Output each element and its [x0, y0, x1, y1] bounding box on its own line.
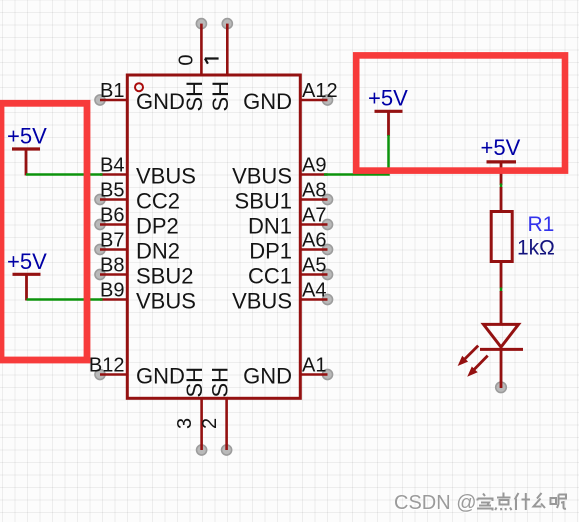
- svg-text:+5V: +5V: [7, 249, 47, 274]
- svg-text:A8: A8: [302, 180, 326, 202]
- LED D1 triangle: [484, 324, 519, 347]
- pin 3 endpoint pad (bottom shield pin): [197, 445, 207, 455]
- pin B12 endpoint pad: [95, 369, 105, 379]
- pin 3 (bottom shield pin): [200, 398, 203, 451]
- pin B1 endpoint pad: [95, 95, 105, 105]
- watermark hanzi 点: [495, 493, 511, 511]
- svg-text:B8: B8: [100, 255, 124, 277]
- svg-text:GND: GND: [243, 89, 292, 114]
- highlight box (top right, around +5V flag): [356, 55, 565, 170]
- pin B8: [100, 273, 127, 276]
- svg-text:SH: SH: [182, 367, 207, 398]
- LED D1 light arrow 1: [459, 346, 478, 365]
- svg-text:0: 0: [176, 54, 198, 65]
- pin A1 endpoint pad: [322, 369, 332, 379]
- pin 1 (top shield pin): [226, 24, 229, 76]
- svg-text:R1: R1: [528, 213, 555, 236]
- pin B4: [100, 173, 127, 176]
- svg-text:A12: A12: [302, 80, 338, 102]
- wire +5V to B4: [26, 173, 103, 176]
- power flag +5V #3 bar: [375, 110, 403, 113]
- pin A12: [301, 99, 328, 102]
- pin 1 number label: [205, 59, 219, 64]
- pin A8: [301, 198, 328, 201]
- svg-text:A9: A9: [302, 155, 326, 177]
- LED D1 cathode pin: [500, 349, 503, 388]
- svg-text:CC1: CC1: [248, 264, 292, 289]
- pin A7 endpoint pad: [322, 219, 332, 229]
- resistor R1 bottom pin: [500, 262, 503, 289]
- pin B6: [100, 223, 127, 226]
- pin B7: [100, 248, 127, 251]
- svg-text:VBUS: VBUS: [136, 289, 196, 314]
- svg-text:A4: A4: [302, 280, 326, 302]
- power flag +5V #2 stem: [25, 274, 28, 300]
- pin 0 (top shield pin): [200, 24, 203, 76]
- svg-text:+5V: +5V: [368, 85, 408, 110]
- pin B8 endpoint pad: [95, 269, 105, 279]
- power flag +5V #4 bar: [487, 160, 517, 163]
- svg-text:VBUS: VBUS: [232, 289, 292, 314]
- wire R1 to LED: [500, 288, 503, 293]
- svg-text:B4: B4: [100, 155, 124, 177]
- pin A5 endpoint pad: [322, 269, 332, 279]
- svg-text:B5: B5: [100, 180, 124, 202]
- svg-text:B7: B7: [100, 230, 124, 252]
- svg-text:GND: GND: [243, 364, 292, 389]
- resistor R1 top pin: [500, 187, 503, 212]
- pin 1 indicator ring (red circle marker): [135, 83, 143, 91]
- pin A8 endpoint pad: [322, 194, 332, 204]
- svg-text:B1: B1: [100, 80, 124, 102]
- pin A4: [301, 298, 328, 301]
- svg-text:A1: A1: [302, 355, 326, 377]
- svg-text:DN2: DN2: [136, 239, 180, 264]
- svg-text:DN1: DN1: [248, 214, 292, 239]
- watermark hanzi 么: [534, 493, 546, 508]
- svg-text:DP1: DP1: [249, 239, 292, 264]
- pin 2 endpoint pad (bottom shield pin): [222, 445, 232, 455]
- svg-text:VBUS: VBUS: [232, 164, 292, 189]
- LED D1 anode pin: [500, 291, 503, 325]
- pin B5 endpoint pad: [95, 194, 105, 204]
- LED D1 cathode endpoint pad: [496, 382, 507, 393]
- pin B1: [100, 99, 127, 102]
- watermark hanzi 写: [477, 494, 493, 511]
- wire +5V to A9: [324, 135, 389, 175]
- pin B9: [100, 298, 127, 301]
- pin A6: [301, 248, 328, 251]
- pin A9: [301, 173, 328, 176]
- LED D1 light arrow 2: [468, 356, 487, 376]
- svg-text:VBUS: VBUS: [136, 164, 196, 189]
- pin A5: [301, 273, 328, 276]
- wire +5V to R1: [500, 184, 503, 189]
- power flag +5V #2 bar: [13, 273, 41, 276]
- pin A6 endpoint pad: [322, 244, 332, 254]
- svg-text:SH: SH: [208, 81, 233, 112]
- svg-text:A5: A5: [302, 255, 326, 277]
- svg-text:A7: A7: [302, 205, 326, 227]
- svg-text:B6: B6: [100, 205, 124, 227]
- pin 1 endpoint pad (top shield pin): [222, 19, 232, 29]
- highlight box (left, around +5V flags): [1, 103, 87, 360]
- svg-text:SBU1: SBU1: [235, 189, 292, 214]
- pin A12 endpoint pad: [322, 95, 332, 105]
- resistor R1 body: [491, 212, 512, 262]
- svg-text:SH: SH: [182, 81, 207, 112]
- svg-text:GND: GND: [136, 364, 185, 389]
- svg-text:GND: GND: [136, 89, 185, 114]
- pin B6 endpoint pad: [95, 219, 105, 229]
- svg-text:SH: SH: [208, 367, 233, 398]
- pin B12: [100, 373, 127, 376]
- power flag +5V #3 stem: [387, 111, 390, 136]
- svg-text:+5V: +5V: [7, 124, 47, 149]
- svg-text:B9: B9: [100, 280, 124, 302]
- connector U1 body (USB Type-C receptacle): [127, 75, 300, 398]
- power flag +5V #1 stem: [25, 149, 28, 176]
- pin 0 endpoint pad (top shield pin): [196, 19, 206, 29]
- wire +5V to B9: [27, 298, 103, 301]
- LED D1 cathode bar: [480, 348, 523, 351]
- svg-text:DP2: DP2: [136, 214, 179, 239]
- svg-text:2: 2: [199, 418, 221, 429]
- pin A7: [301, 223, 328, 226]
- svg-text:CC2: CC2: [136, 189, 180, 214]
- svg-text:CSDN @: CSDN @: [394, 492, 477, 514]
- svg-text:SBU2: SBU2: [136, 264, 193, 289]
- pin 2 (bottom shield pin): [225, 398, 228, 451]
- watermark hanzi 呢: [551, 495, 567, 509]
- pin B7 endpoint pad: [95, 244, 105, 254]
- power flag +5V #1 bar: [12, 147, 40, 150]
- svg-text:+5V: +5V: [481, 135, 521, 160]
- svg-text:A6: A6: [302, 230, 326, 252]
- svg-text:3: 3: [174, 418, 196, 429]
- svg-text:B12: B12: [89, 355, 125, 377]
- pin A1: [301, 373, 328, 376]
- watermark hanzi 什: [515, 493, 530, 510]
- power flag +5V #4 stem: [500, 162, 503, 185]
- svg-text:1kΩ: 1kΩ: [517, 237, 555, 260]
- pin B5: [100, 198, 127, 201]
- pin A4 endpoint pad: [322, 294, 332, 304]
